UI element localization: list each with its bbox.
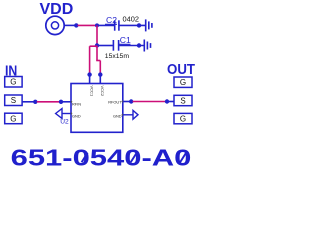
- off-page arrow (right GND): [133, 110, 138, 119]
- svg-text:G: G: [10, 114, 16, 123]
- pin origin dot GND left: [70, 113, 72, 115]
- slash of zero 1: [82, 153, 88, 163]
- C1 label underline: [119, 43, 131, 45]
- junction dot OUT: [165, 99, 169, 103]
- svg-text:VCC2: VCC2: [100, 86, 105, 97]
- junction dot: [74, 23, 78, 27]
- wire junction to C1: [97, 45, 113, 47]
- connector OUT pad G (bottom): [174, 113, 192, 123]
- wire junction to C2: [97, 24, 114, 26]
- svg-text:S: S: [180, 96, 185, 105]
- junction dot C2/ground: [137, 23, 141, 27]
- junction dot node C1: [95, 43, 99, 47]
- svg-text:VCC1: VCC1: [90, 86, 95, 97]
- pin dot VCC2: [98, 72, 102, 76]
- connector IN pad G (top): [5, 77, 22, 88]
- connector IN pad S: [5, 95, 22, 106]
- wire to RFIN pin: [62, 101, 71, 103]
- svg-text:RFOUT: RFOUT: [108, 100, 122, 105]
- capacitor C2 plates: [114, 20, 116, 30]
- power symbol (double circle): [46, 16, 64, 34]
- wire VDD down to VCC2 jog: [96, 46, 98, 61]
- wire RFOUT net (magenta): [133, 101, 166, 103]
- wire VDD circle to junction: [64, 24, 75, 26]
- wire RFIN net (magenta): [37, 101, 60, 103]
- pin stub VCC2: [99, 75, 101, 84]
- svg-text:0402: 0402: [123, 14, 139, 23]
- C2 label underline: [105, 23, 117, 25]
- pin origin dot GND right: [122, 114, 124, 116]
- wire to OUT S pad: [168, 101, 174, 103]
- wire down to VCC2 pin: [99, 61, 101, 75]
- svg-text:OUT: OUT: [167, 62, 195, 78]
- wire down to VCC1 pin: [89, 46, 91, 74]
- wire VDD net (magenta): [78, 24, 98, 26]
- connector OUT pad G (top): [174, 77, 192, 87]
- slash of zero 3: [180, 153, 186, 163]
- svg-text:C2: C2: [106, 15, 117, 25]
- off-page arrow (left GND): [56, 109, 62, 119]
- svg-text:RFIN: RFIN: [72, 102, 81, 107]
- pin origin dot RFIN: [70, 101, 72, 103]
- svg-text:GND: GND: [72, 113, 81, 118]
- svg-text:U2: U2: [60, 119, 69, 126]
- wire IN S to junction: [22, 101, 34, 103]
- capacitor C1 plates: [112, 40, 114, 51]
- wire right GND pin to arrow: [123, 114, 133, 116]
- wire C1 to ground: [119, 45, 143, 47]
- connector IN pad G (bottom): [5, 113, 22, 124]
- ground (C2): [146, 19, 152, 31]
- slash of zero 2: [131, 153, 137, 163]
- svg-text:S: S: [11, 96, 16, 105]
- svg-text:C1: C1: [120, 35, 131, 45]
- junction dot RFIN: [59, 100, 63, 104]
- svg-text:GND: GND: [113, 113, 122, 118]
- pin dot VCC1: [87, 72, 91, 76]
- junction dot C1/ground: [137, 43, 141, 47]
- junction dot node VDD/C2: [95, 23, 99, 27]
- svg-text:G: G: [10, 78, 16, 87]
- wire jog to VCC2 x: [96, 60, 100, 62]
- wire RFOUT pin to junction: [123, 101, 130, 103]
- junction dot RFOUT: [129, 99, 133, 103]
- svg-text:G: G: [180, 78, 186, 87]
- ground (C1): [144, 40, 150, 52]
- wire C2 to ground: [120, 24, 146, 26]
- pin origin dot RFOUT: [122, 101, 124, 103]
- pin stub VCC1: [89, 75, 91, 84]
- svg-text:651-0540-A0: 651-0540-A0: [11, 145, 192, 168]
- connector OUT pad S: [174, 95, 192, 105]
- wire left GND arrow to pin: [62, 113, 71, 115]
- svg-text:G: G: [180, 115, 186, 124]
- junction dot IN: [33, 100, 37, 104]
- op-amp U2 body: [71, 84, 123, 133]
- wire branch to VCC1: [90, 45, 97, 47]
- svg-text:15x15m: 15x15m: [105, 53, 130, 60]
- wire VDD vertical to C1 node: [96, 25, 98, 45]
